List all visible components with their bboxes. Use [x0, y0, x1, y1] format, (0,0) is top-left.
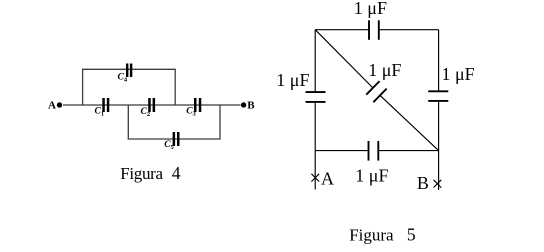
svg-text:Figura: Figura — [120, 164, 163, 183]
svg-text:Figura: Figura — [349, 226, 394, 245]
svg-text:1 μF: 1 μF — [355, 166, 388, 186]
svg-text:B: B — [247, 100, 255, 112]
svg-text:1 μF: 1 μF — [442, 64, 475, 84]
svg-text:1 μF: 1 μF — [354, 0, 387, 18]
svg-text:5: 5 — [407, 225, 416, 245]
svg-text:4: 4 — [172, 163, 181, 183]
svg-text:A: A — [321, 168, 334, 188]
svg-text:1 μF: 1 μF — [368, 60, 401, 80]
svg-text:1 μF: 1 μF — [276, 70, 309, 90]
svg-text:A: A — [48, 100, 56, 112]
svg-text:B: B — [417, 173, 429, 193]
